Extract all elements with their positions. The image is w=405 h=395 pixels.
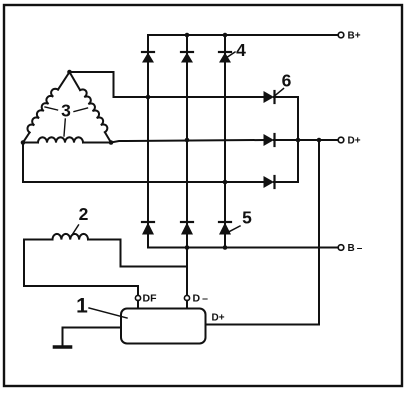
wire column 2 down to D- terminal [186,248,188,296]
wire bridge column 1 [147,35,149,248]
diode 4.2 (B+ rectifier) [181,52,193,63]
svg-text:4: 4 [236,40,246,60]
terminal B+ [338,32,344,38]
terminal B- [338,245,344,251]
terminal DF [135,295,140,300]
wire D+ branch down to regulator [206,140,320,325]
wire diode 6.2 cathode to D+ rail [274,139,298,141]
wire phase U (top vertex to exciter diode 6.1) [70,72,264,97]
svg-text:1: 1 [76,295,88,318]
regulator U1 (box 1) [121,309,206,344]
node D+ branch junction [317,138,322,143]
terminal D+ [338,137,344,143]
wire DF stub to regulator [137,301,139,309]
svg-text:6: 6 [282,71,292,91]
node phase W / column 3 junction [223,180,228,185]
wire D+ line to terminal [298,139,338,141]
diode 4.1 (B+ rectifier) [142,52,154,63]
wire phase W (bottom-left vertex down and right to exciter diode 6.3) [23,143,264,183]
svg-text:D+: D+ [348,136,361,147]
terminal D- [184,295,189,300]
label pointer for 1 [89,308,127,318]
label pointer for 4 [228,52,236,57]
wire diode 6.1 cathode to D+ rail [274,96,298,98]
wire field winding left to DF [24,240,138,296]
field winding 2 (rotor coil) [53,234,89,240]
wire B- bus [148,247,338,249]
diode 4.3 (B+ rectifier) [219,52,231,63]
svg-text:B –: B – [348,243,363,254]
node B- bus / column 2 junction [185,245,190,250]
ground [55,345,71,349]
label pointer for 6 [275,89,284,97]
wire regulator to ground [63,328,122,347]
wire B+ bus [148,34,338,36]
node top bus / column 2 junction [185,33,190,38]
svg-text:D –: D – [193,293,209,305]
node delta bottom-right vertex [109,140,114,145]
svg-text:D+: D+ [212,313,225,324]
svg-text:B+: B+ [348,31,361,42]
stator winding 3 : bottom leg coil [23,142,38,144]
svg-text:2: 2 [79,204,89,224]
node phase V / column 2 junction [185,138,190,143]
diode 6.1 (exciter diode) [264,91,275,103]
wire phase V (bottom-right vertex to exciter diode 6.2) [111,140,264,143]
diode 5.3 (B- rectifier) [219,222,231,235]
diode 5.2 (B- rectifier) [181,222,193,235]
svg-text:3: 3 [61,101,71,121]
label pointer for 5 [230,226,241,232]
node delta bottom-left vertex [21,140,26,145]
wire D- stub to regulator [186,301,188,309]
node B- bus / column 3 junction [223,245,228,250]
label pointer for 2 [73,225,79,234]
svg-text:5: 5 [242,208,252,228]
node phase U / column 1 junction [146,95,151,100]
stator winding 3 : right leg coil [70,72,81,90]
stator winding 3 (delta) : left leg coil [58,72,70,90]
wire exciter output rail [297,97,299,182]
node top bus / column 3 junction [223,33,228,38]
diode 5.1 (B- rectifier) [142,222,154,235]
label pointers for 3 (dashed) [45,107,88,136]
node exciter rail / D+ line junction [296,138,301,143]
diode 6.2 (exciter diode) [264,134,275,146]
wire field winding right to D- column [88,240,187,267]
wire bridge column 2 [186,35,188,248]
svg-text:DF: DF [143,293,158,305]
diode 6.3 (exciter diode) [264,176,275,188]
node delta top vertex [67,70,72,75]
wire bridge column 3 [224,35,226,248]
wire diode 6.3 cathode to D+ rail [274,181,298,183]
